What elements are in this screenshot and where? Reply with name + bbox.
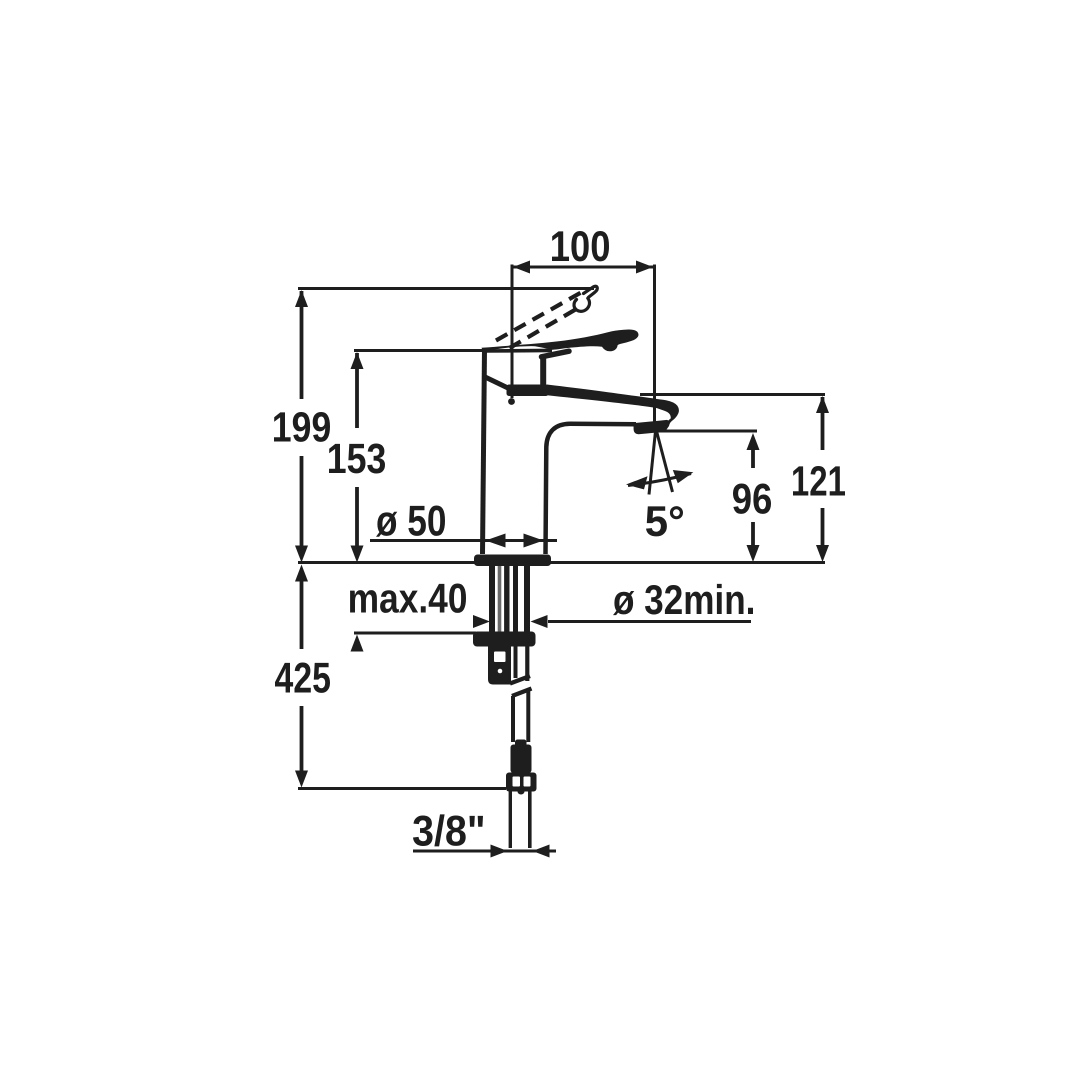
cartridge collar band <box>507 385 549 397</box>
dimension 3/8 inch: label, line, inward arrows <box>413 845 556 858</box>
supply tails between flange and nut <box>492 566 527 632</box>
label 425 <box>275 663 330 693</box>
reference line 425 bottom <box>298 787 506 790</box>
aerator <box>634 420 671 434</box>
hose break stripes <box>510 676 530 684</box>
spout top band with beak tip rim <box>547 385 679 426</box>
faucet lever handle (solid, horizontal position) <box>482 329 639 351</box>
dimension 100: line, arrows, extension lines, label <box>508 261 654 427</box>
hose ferrule <box>515 740 527 749</box>
label 121 <box>793 466 845 496</box>
label max.40 <box>350 584 466 613</box>
dimension 199: vertical line with arrows <box>295 290 308 563</box>
connection fitting block <box>488 647 511 685</box>
base flange <box>474 555 551 567</box>
reference line top (199 level) <box>298 287 594 290</box>
dimension 121: vertical line with arrows <box>816 396 829 562</box>
dimension 425: vertical line with arrows <box>295 565 308 788</box>
dimension diameter 32 min: label, leader, arrows <box>473 615 751 628</box>
reference line 121 level <box>640 393 825 396</box>
cartridge cap: top edge, left edge, front diagonal <box>483 350 553 555</box>
mounting surface line <box>298 561 825 564</box>
dimension 96: vertical line with arrows <box>747 433 760 562</box>
reference line 96 level <box>657 430 757 433</box>
flexible hose upper segment <box>514 647 518 679</box>
label 3/8 inch <box>413 814 483 846</box>
5 degree angle: vee lines, arc with arrowheads <box>628 431 691 495</box>
mounting nut <box>473 632 536 647</box>
dimension 153: vertical line with arrows <box>351 352 364 563</box>
label 100 <box>552 231 609 261</box>
dimension labels (Liberation Sans Bold outlines, condensed) <box>274 231 845 846</box>
lever stem (L-shaped joystick arm) <box>542 351 570 357</box>
label 96 <box>733 484 771 514</box>
connector tail pipe <box>509 792 512 849</box>
spout underside and body right edge <box>546 424 637 554</box>
dimension diameter 50: leader line and outward arrows <box>370 534 557 548</box>
label 5 degrees <box>646 506 683 536</box>
dimension max.40: label, reference line, up arrow <box>351 633 477 652</box>
label diameter 50 <box>376 506 445 537</box>
label 199 <box>274 412 330 442</box>
hose connector nut 3/8 inch <box>506 773 537 792</box>
flexible hose lower segment <box>511 696 515 742</box>
label diameter 32 min <box>613 584 753 615</box>
reference line 153 level <box>354 349 486 352</box>
label 153 <box>329 444 385 474</box>
faucet lever raised position (dashed) with solid tip <box>496 286 597 348</box>
